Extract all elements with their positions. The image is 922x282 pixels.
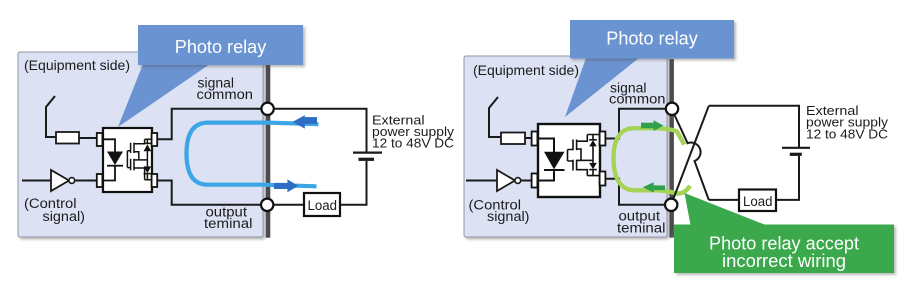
power symbol (control supply tick) left xyxy=(46,96,55,138)
terminal circle signal common (left) xyxy=(261,103,273,115)
svg-text:teminal: teminal xyxy=(617,220,666,235)
MOSFET pair with body diodes inside relay (left) xyxy=(127,139,151,180)
power symbol (control supply tick) right xyxy=(489,97,498,138)
isolation barrier bar (left) xyxy=(266,65,271,238)
svg-text:common: common xyxy=(197,87,254,102)
wire top rail to external supply (right) xyxy=(709,106,799,147)
battery BT2 (right) xyxy=(782,147,810,149)
pin 3 (bottom-right) xyxy=(152,174,158,187)
wire inverter to relay pin 2 (right) xyxy=(521,180,532,182)
body diode bottom (apex down) xyxy=(144,166,152,173)
wire resistor to relay pin 1 xyxy=(79,137,97,139)
svg-text:teminal: teminal xyxy=(204,216,253,231)
svg-text:signal): signal) xyxy=(43,209,86,224)
wire relay pin4 to signal common terminal (right) xyxy=(605,109,666,139)
crossed wire from signal common down to load rail, with hop over xyxy=(674,115,709,200)
green arrow current in (bottom, pointing left) xyxy=(643,182,654,192)
wire relay pin3 to output terminal xyxy=(157,181,261,205)
svg-text:(Equipment side): (Equipment side) xyxy=(24,57,130,73)
svg-text:12 to 48V DC: 12 to 48V DC xyxy=(372,137,454,151)
blue current loop (left) xyxy=(187,123,319,187)
svg-text:Photo relay: Photo relay xyxy=(606,29,698,49)
MOSFET pair with body diodes inside relay (right) xyxy=(568,135,600,176)
equipment panel (right) xyxy=(464,56,667,237)
LED D2 inside relay (right) xyxy=(538,139,565,181)
pin 1 (top-left) xyxy=(97,133,103,146)
wire control input xyxy=(22,180,52,182)
svg-text:Photo relay: Photo relay xyxy=(175,37,267,57)
pin 4 (top-right) xyxy=(152,133,158,146)
wire supply to resistor R2 xyxy=(489,136,502,138)
svg-text:12 to 48V DC: 12 to 48V DC xyxy=(806,127,888,141)
svg-text:Load: Load xyxy=(743,194,773,209)
wire relay pin3 to output terminal (right) xyxy=(605,179,665,205)
pin 4 (top-right, right diagram) xyxy=(600,132,606,146)
LED D1 inside relay (left) xyxy=(103,139,123,180)
battery BT1 (left) xyxy=(353,152,382,154)
wire supply to resistor R1 xyxy=(46,136,57,138)
terminal circle output (right) xyxy=(665,199,677,211)
inverter gate (control signal buffer) left xyxy=(51,170,69,191)
pin 2 (bottom-left) xyxy=(97,174,103,187)
load box (right) xyxy=(739,190,776,212)
wire resistor to relay pin 1 (right) xyxy=(525,137,532,139)
photo relay package U2 (right) xyxy=(538,124,600,197)
green arrow current out (top, pointing right) xyxy=(641,123,654,129)
load box (left) xyxy=(304,193,340,216)
wire control input (right) xyxy=(466,180,498,182)
pin 2 (bottom-left, right diagram) xyxy=(532,174,538,188)
callout Photo relay (left) xyxy=(118,25,303,127)
callout Photo relay accept incorrect wiring (green) xyxy=(674,193,894,273)
isolation barrier bar (right) xyxy=(669,59,674,238)
crossed wire from output terminal up to supply rail (right) xyxy=(673,106,709,199)
wire crossed rail to load (right) xyxy=(709,199,739,201)
pin 3 (bottom-right, right diagram) xyxy=(600,172,606,186)
terminal circle output (left) xyxy=(261,199,273,211)
callout Photo relay (right) xyxy=(565,20,734,117)
blue arrow current out (bottom, pointing right) xyxy=(274,183,288,189)
resistor R1 xyxy=(56,132,79,144)
resistor R2 xyxy=(501,133,525,145)
inverter gate (control signal buffer) right xyxy=(497,170,515,191)
wire inverter to relay pin 2 xyxy=(75,180,97,182)
wire top rail to external supply (left) xyxy=(274,109,367,152)
svg-text:(Equipment side): (Equipment side) xyxy=(473,62,579,78)
wire output terminal to load (left) xyxy=(273,204,304,206)
terminal circle signal common (right) xyxy=(666,103,678,115)
pin 1 (top-left, right diagram) xyxy=(532,132,538,146)
svg-text:signal): signal) xyxy=(487,209,530,224)
blue arrow current in (top, pointing left) xyxy=(293,115,305,128)
green current loop (right) xyxy=(614,128,691,193)
body diode top (apex up) xyxy=(144,144,152,151)
body diode bottom right (apex down) xyxy=(589,163,597,169)
equipment panel (left) xyxy=(18,52,263,237)
svg-text:Load: Load xyxy=(308,198,338,213)
svg-text:incorrect wiring: incorrect wiring xyxy=(722,251,846,271)
wire battery to bottom rail (right) xyxy=(776,156,799,200)
wire battery to bottom rail (left) xyxy=(340,161,367,205)
svg-text:common: common xyxy=(609,92,666,107)
body diode top right (apex up) xyxy=(589,140,597,146)
photo relay package U1 (left) xyxy=(103,128,152,192)
wire relay pin4 to signal common terminal xyxy=(157,109,261,140)
